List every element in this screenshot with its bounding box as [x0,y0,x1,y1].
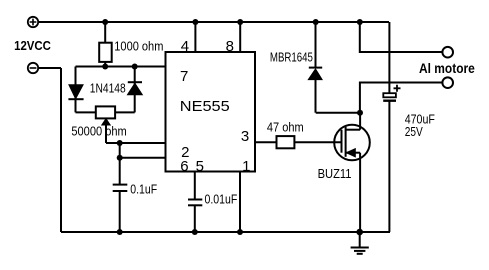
svg-text:8: 8 [226,38,234,55]
svg-text:MBR1645: MBR1645 [270,49,313,64]
svg-text:5: 5 [196,158,204,175]
wire wiper to pin 2 [106,142,166,144]
wire junction down [119,143,121,158]
node C1-ground [117,229,123,235]
node rail-pin4 [192,19,198,25]
node pin1-ground [237,229,243,235]
diode D2 1N4148 (right, cathode up) [128,82,143,95]
svg-text:NE555: NE555 [180,98,230,115]
svg-text:1: 1 [242,158,250,175]
node source-ground [356,229,363,236]
svg-text:25V: 25V [405,124,423,139]
svg-text:12VCC: 12VCC [14,38,51,53]
wire down to C1 [119,158,121,185]
potentiometer R2 50000 ohm (box) [96,106,115,118]
terminal - (12V negative) [28,63,38,73]
svg-text:BUZ11: BUZ11 [318,166,352,181]
node rail-R1 [102,19,108,25]
ground symbol [351,232,369,254]
node pin6-C1 [117,155,123,161]
wire diode loop left [75,67,77,113]
svg-text:1000 ohm: 1000 ohm [114,39,163,54]
wire drain node to MOSFET [359,113,361,130]
wire left rail down [60,68,62,232]
wire diode loop top (to pin 7) [76,66,166,68]
wire diode loop bottom [76,111,135,113]
node rail-D3 [313,19,319,25]
wire top +12V rail [38,21,389,23]
wire D3 to drain node [316,112,360,114]
capacitor C3 470uF plus sign [394,85,401,92]
diode D1 1N4148 (left, cathode down) [68,85,83,100]
node rail-motor [357,19,363,25]
wire pin 1 to ground rail [239,172,241,233]
wire pin 3 to R3 [255,141,277,143]
op-amp U1 NE555 body [166,52,256,172]
svg-text:Al motore: Al motore [419,61,475,76]
terminal motor bottom [442,77,453,88]
node C2-ground [192,229,198,235]
wire diode loop right [134,67,136,113]
wire top rail right corner down to capacitor [388,22,390,93]
node rail-pin8 [237,19,243,25]
wire pin 5/6 down to C2 [194,172,196,200]
node drain [357,110,363,116]
transistor Q1 BUZ11 MOSFET [334,125,370,161]
svg-text:0.1uF: 0.1uF [130,182,157,197]
terminal motor top [442,47,453,58]
wire source to ground rail [359,153,361,232]
svg-text:1N4148: 1N4148 [90,80,126,95]
svg-text:4: 4 [181,38,189,55]
svg-text:3: 3 [241,128,249,145]
node wiper-pin2 [117,140,123,146]
wire pin 8 to rail [239,22,241,52]
diode D3 MBR1645 (cathode up) [308,22,322,113]
wire R3 to gate [294,141,341,143]
resistor R3 47 ohm [277,136,295,148]
wire pin 4 to rail [194,22,196,52]
svg-text:47 ohm: 47 ohm [267,120,304,135]
wire minus terminal to left rail [38,67,61,69]
wire motor bottom terminal to drain [360,83,442,113]
svg-text:50000 ohm: 50000 ohm [71,124,126,139]
wire rail to motor top terminal [360,22,443,52]
capacitor C2 0.01uF [188,200,202,233]
wire bottom ground rail [61,231,390,233]
resistor R1 1000 ohm (vertical box) [99,22,112,67]
wire to pin 6 [120,157,166,159]
potentiometer wiper arrow [102,119,110,143]
svg-text:7: 7 [180,68,188,85]
terminal + (12V positive) [28,17,38,27]
svg-text:6: 6 [180,158,188,175]
node R1-loop [102,64,108,70]
node D2-pin7 [132,64,138,70]
svg-text:0.01uF: 0.01uF [205,192,238,207]
capacitor C1 0.1uF [113,185,128,232]
capacitor C3 470uF plates [383,93,396,232]
